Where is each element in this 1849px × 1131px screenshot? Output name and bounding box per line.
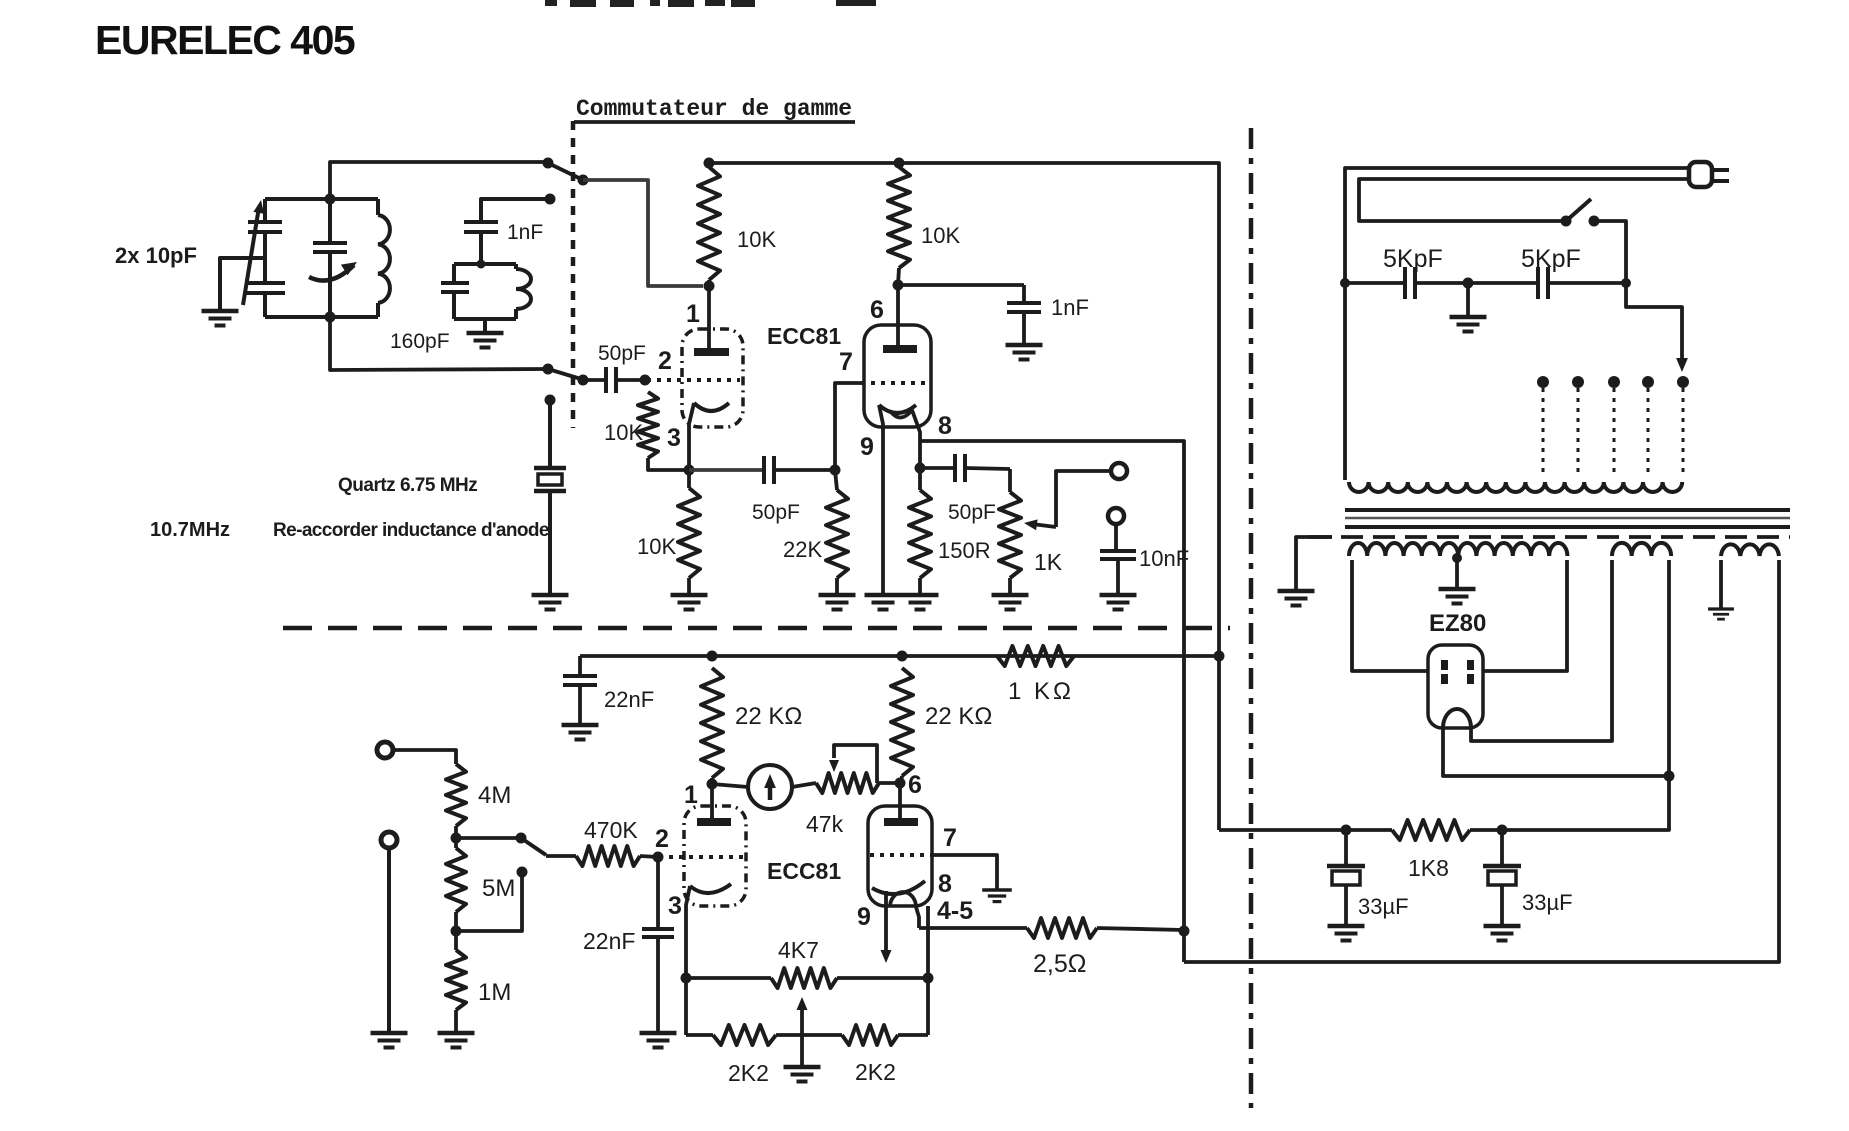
capacitor 5KpF right [1536,267,1540,299]
node quartz top terminal [545,395,556,406]
node plate pin6 top [893,280,904,291]
node heater riser [1179,926,1190,937]
wire 6.3V left to ground [1719,560,1723,608]
wire V2b right edge down [926,906,930,1035]
cathode arc V2b bottom [872,881,925,894]
resistor 22K plate bot2 [891,651,913,784]
variable capacitor C1b (tuning gang section 2) [245,283,285,317]
wire quartz top [548,400,552,466]
svg-text:50pF: 50pF [752,501,800,524]
plate bar V2b bottom [884,818,918,826]
ground 1nF decoupling [1006,343,1043,348]
svg-text:1M: 1M [478,979,511,1006]
capacitor 33uF right [1483,830,1521,925]
svg-text:10K: 10K [737,227,776,252]
wire input2 to ground [387,848,391,1032]
wire 4-5 to 2.5ohm [919,926,1027,930]
svg-text:1nF: 1nF [1051,295,1089,320]
ground shield [1278,589,1315,594]
resistor 1 Kohm B+ [997,646,1074,666]
capacitor 1nF (left) [464,220,498,224]
svg-text:470K: 470K [584,817,638,843]
wire 1M to ground [454,1010,458,1032]
ground 33uF right [1484,924,1521,929]
node plate pin1 bottom [707,779,718,790]
ground 6.3V left [1708,607,1734,610]
ground gang [202,309,239,314]
wire cap line mid [1415,281,1538,285]
ground 4K7 tap [784,1065,821,1070]
node plate pin6 bottom [895,778,906,789]
svg-text:ECC81: ECC81 [767,858,841,884]
terminal input 2 [381,832,397,848]
svg-text:1K: 1K [1034,549,1063,575]
node cathode junction top1 [684,465,695,476]
node mains line1 cap junction [1340,278,1350,288]
switch alternate contact [458,867,528,932]
resistor 1M [446,950,466,1010]
inductor L1 (tank coil) [378,199,390,317]
wire cathode bus left [686,976,771,980]
ground 10nF [1100,593,1137,598]
node mains cap right [1621,278,1631,288]
resistor 22K [826,470,848,594]
resistor 22K plate bot1 [701,651,723,785]
wire cap center ground [1466,283,1470,316]
wire tank bottom rail [265,315,378,319]
label Commutateur de gamme [574,96,855,122]
capacitor 10nF [1100,551,1136,594]
resistor 10K plate 2 [888,158,910,286]
wire 50pF to grid node [616,378,644,382]
wire B+ to amp [1219,828,1346,832]
wire mains line 2 [1359,179,1690,221]
terminal input 1 [377,742,393,758]
ground 10K cathode [671,593,708,598]
capacitor 33uF left [1327,830,1365,925]
variable capacitor C1a (tuning gang section 1) [248,199,282,283]
svg-text:33µF: 33µF [1522,890,1573,915]
svg-text:50pF: 50pF [948,501,996,524]
capacitor 50pF grid (input) [604,367,608,393]
transformer core laminations [1345,510,1790,527]
resistor 10K plate 1 [698,158,720,287]
ground 1M [438,1031,475,1036]
ground 5KpF center [1450,315,1487,320]
wire 6.3V right heater line [1184,560,1779,962]
primary tap 5 (selected) [1677,376,1689,478]
plate bar V1b top [883,345,917,353]
mains plug [1689,162,1729,187]
rectifier EZ80 envelope [1428,645,1483,728]
svg-text:10nF: 10nF [1139,546,1189,571]
svg-text:5KpF: 5KpF [1383,245,1443,273]
wire S-node to plate [707,286,711,351]
crystal Quartz 6.75 MHz [534,468,566,491]
node plate pin1 top [704,281,715,292]
wire EZ80 heater [1471,560,1612,741]
svg-text:22 KΩ: 22 KΩ [925,703,992,730]
svg-text:8: 8 [938,412,952,440]
switch tone (input divider) [516,833,577,857]
ground pin7 [982,888,1012,892]
wire grid dotted tube2 top [861,381,929,385]
svg-text:9: 9 [860,433,874,461]
svg-text:22K: 22K [783,537,822,562]
wire plate2 to 1nF [898,283,1024,287]
svg-text:160pF: 160pF [390,330,450,353]
svg-text:10K: 10K [637,534,676,559]
node divider top [451,826,522,848]
svg-text:33µF: 33µF [1358,894,1409,919]
wire tank top rail [265,197,378,201]
svg-text:10.7MHz: 10.7MHz [150,519,230,541]
triode V2a ECC81 envelope bottom (dashed) [684,806,746,906]
wire mains line 1 [1345,168,1690,480]
svg-text:Quartz 6.75 MHz: Quartz 6.75 MHz [338,475,477,496]
anode plates EZ80 [1441,660,1474,684]
ground 33uF left [1328,924,1365,929]
wire HV left to anode [1352,560,1428,671]
transformer secondary 6.3V winding [1721,544,1779,556]
svg-text:2x 10pF: 2x 10pF [115,243,197,268]
plate bar V1a top [694,348,729,356]
heater arc V1b top [891,410,920,441]
resistor 10K cathode [678,470,700,594]
potentiometer 47k [816,745,879,793]
resistor 150R [909,468,931,594]
wire grid2 riser [835,383,861,470]
wire input1 to 4M [394,750,456,764]
switch S1a (band switch upper) [543,158,589,186]
transformer shield dashed [1309,535,1790,539]
node grid2 bottom [653,852,664,863]
svg-text:EZ80: EZ80 [1429,610,1486,637]
heater arc V2b bottom [881,891,920,963]
resistor 470K [576,846,658,866]
wire coupling to grid2 [774,468,835,472]
wire 2.5ohm to heater riser [1097,928,1184,930]
wire switch to tap [1594,221,1626,283]
node 1nF top terminal [545,194,556,205]
wire pin6 to plate bottom [898,783,902,822]
wire quartz bottom [548,491,552,594]
svg-text:4K7: 4K7 [778,937,819,963]
svg-text:4-5: 4-5 [937,897,973,925]
wire lamp to 47k [792,783,816,787]
wire heater right to B+ [1502,560,1675,830]
wire 1nF feed [481,199,550,222]
ground 1K [992,593,1029,598]
svg-text:ECC81: ECC81 [767,323,841,349]
svg-text:9: 9 [857,903,871,931]
capacitor 22nF decoupling B+ [563,656,597,724]
node grid2 feed [830,465,841,476]
ground cathode V1b [865,593,902,598]
svg-text:22nF: 22nF [583,928,635,954]
trap circuit 160pF with coil [441,264,531,332]
trimmer capacitor C2 (tank, with arrow) [309,199,357,317]
capacitor 22nF grid bottom [642,857,674,1032]
svg-text:3: 3 [668,892,682,920]
wire cathode bus right [837,976,928,980]
transformer primary winding [1349,482,1682,492]
node tank bottom [325,312,336,323]
primary tap 2 [1572,376,1584,478]
ground quartz [532,593,569,598]
svg-text:5M: 5M [482,875,515,902]
svg-text:2,5Ω: 2,5Ω [1033,950,1086,978]
cathode arc V2a bottom [686,884,731,1035]
svg-text:10K: 10K [604,420,643,445]
wire shield to ground [1296,537,1332,590]
primary tap 4 [1642,376,1654,478]
primary tap 1 [1537,376,1549,478]
wire 1nF to trap [477,232,486,269]
node cathode bus right [923,973,934,984]
wire output cap to 1K [965,468,1010,469]
potentiometer 1K [999,469,1021,594]
wire grid dotted V2a [659,855,744,859]
node 150R top [915,441,926,474]
capacitor 50pF output [953,454,957,482]
svg-text:1K8: 1K8 [1408,855,1449,881]
plate bar V2a bottom [697,818,731,826]
ground input 2 [371,1031,408,1036]
svg-text:50pF: 50pF [598,342,646,365]
tuning indicator lamp [712,765,792,809]
wire S1a to anode node [583,180,703,286]
terminal output 1 [1111,463,1127,479]
band switch dashed line [571,121,576,428]
svg-text:6: 6 [908,771,922,799]
node B+ rail join [1214,651,1225,662]
cathode arc V1a top [689,403,729,470]
ground 160pF trap [467,331,504,336]
svg-text:22nF: 22nF [604,687,654,712]
transformer secondary heater EZ80 winding [1612,543,1671,556]
svg-text:EURELEC 405: EURELEC 405 [95,17,355,63]
resistor 2K2 left [686,1025,802,1045]
svg-text:3: 3 [667,424,681,452]
ground 22K [819,593,856,598]
svg-text:Commutateur de gamme: Commutateur de gamme [576,96,852,122]
svg-text:8: 8 [938,870,952,898]
resistor 2.5 ohm [1027,918,1097,938]
wiper 1K to terminal [1024,471,1110,530]
svg-text:1: 1 [684,781,698,809]
wire HV right to anode [1483,560,1567,671]
svg-text:1: 1 [686,300,700,328]
cathode arc V1b top [879,405,916,594]
terminal output 2 [1108,508,1124,524]
gang arrow [243,200,264,305]
wire 4K7 tap to ground [800,1035,804,1066]
svg-text:150R: 150R [938,538,991,563]
svg-text:2K2: 2K2 [728,1060,769,1086]
capacitor 1nF decoupling [1007,285,1041,344]
wire tap descent [1626,283,1688,372]
svg-text:1nF: 1nF [507,221,543,244]
wire cathode to coupling cap [689,468,764,472]
cathode arc EZ80 [1443,709,1471,728]
node grid pin2 top [640,375,651,386]
svg-text:7: 7 [943,824,957,852]
svg-text:1 KΩ: 1 KΩ [1008,678,1074,705]
wire tank top to band switch [330,162,546,199]
resistor 5M [446,848,466,912]
wire gang center tap [220,258,265,310]
wire cathode V2a vertical node [681,973,692,984]
section separator vertical dash-dot [1249,128,1254,1108]
svg-text:22 KΩ: 22 KΩ [735,703,802,730]
triode V1b ECC81 envelope top [864,325,931,427]
wire HV center tap [1452,553,1462,588]
svg-text:4M: 4M [478,782,511,809]
section separator horizontal dashed [283,626,1230,631]
resistor 2K2 right [802,1025,928,1045]
svg-text:2: 2 [658,347,672,375]
resistor 4M [446,764,466,826]
resistor 1K8 filter [1341,820,1508,840]
svg-text:47k: 47k [806,811,844,837]
node cap center [1463,278,1474,289]
wire pin6 to plate [896,285,900,349]
ground 22nF grid [640,1031,677,1036]
wire cap line left [1345,281,1405,285]
node divider bottom [451,912,462,950]
potentiometer 4K7 [771,968,837,1035]
ground 22nF B+ [562,723,599,728]
wire grid dotted V2b [870,853,932,857]
svg-text:7: 7 [839,348,853,376]
svg-text:2K2: 2K2 [855,1059,896,1085]
wire B+ rail bottom section [580,654,1220,658]
wire EZ80 cathode out [1443,728,1666,776]
switch S1b (band switch lower) [543,364,589,386]
wire tank bottom to S1b [330,317,546,370]
capacitor 50pF coupling 1 [762,456,766,484]
svg-text:6: 6 [870,296,884,324]
wire pin8 heater line [920,441,1184,962]
switch mains [1561,199,1600,227]
wire 150R node to output cap [920,466,955,470]
wire B+ riser right [709,163,1219,830]
primary tap 3 [1608,376,1620,478]
svg-text:Re-accorder inductance d'anode: Re-accorder inductance d'anode [273,520,549,541]
svg-text:2: 2 [655,825,669,853]
wire 47k to pin6 node [879,781,900,785]
resistor 10K grid leak [638,392,687,470]
wire cap line right [1548,281,1626,285]
wire grid dotted tube1 top [647,378,740,382]
transformer secondary HV winding [1349,543,1567,556]
wire pin1 to plate bottom [710,784,714,822]
ground 150R [902,593,939,598]
svg-text:10K: 10K [921,223,960,248]
node tank top [325,194,336,205]
wire pin7 to ground [932,855,997,889]
svg-text:5KpF: 5KpF [1521,245,1581,273]
capacitor 5KpF left [1403,267,1407,299]
wire terminal2 to 10nF [1114,524,1118,549]
wire S1b to 50pF [583,378,606,382]
triode V2b ECC81 envelope bottom [868,806,932,906]
ground HV center tap [1439,587,1476,592]
op triode V1a ECC81 envelope (dashed) [682,329,743,427]
